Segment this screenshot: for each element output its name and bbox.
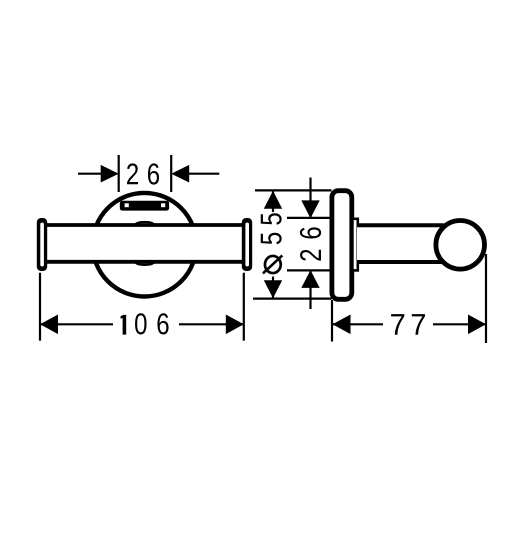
dimension 106 bottom: value text bbox=[121, 313, 169, 334]
dimension 77: dimension line and arrows bbox=[332, 315, 486, 335]
dimension 26 side: extension lines bbox=[287, 218, 331, 271]
front view: right end cap bbox=[242, 218, 252, 271]
dimension 26 top: extension lines bbox=[119, 155, 172, 192]
front view: mounting bracket plate bbox=[120, 201, 169, 211]
side view: collar flange bbox=[352, 219, 357, 271]
front view: left end cap bbox=[37, 218, 47, 271]
dimension 26 top: value text bbox=[127, 163, 159, 184]
front view: centre post bump bottom bbox=[135, 263, 154, 265]
dimension diameter 55: value text rotated bbox=[261, 213, 283, 273]
dimension diameter 55: dimension line and arrows bbox=[264, 190, 282, 298]
side view: hook arm bbox=[357, 225, 444, 262]
dimension 106 bottom: extension lines bbox=[40, 273, 244, 341]
side view: ball end bbox=[436, 221, 485, 270]
dimension 26 side: value text rotated bbox=[300, 227, 321, 260]
dimension 106 bottom: dimension line and arrows bbox=[40, 315, 244, 335]
dimension 26 top: leader and arrows bbox=[78, 165, 219, 183]
dimension 77: value text bbox=[391, 314, 425, 335]
dimension 26 side: dimension line and arrows bbox=[301, 178, 319, 310]
front view: hook bar body bbox=[47, 225, 242, 262]
front view: centre post bump top bbox=[135, 222, 154, 224]
front view: wall rosette circle bbox=[93, 193, 197, 297]
dimension 77: extension lines bbox=[332, 254, 486, 343]
side view: rosette plate bbox=[332, 191, 352, 300]
dimension diameter 55: extension lines bbox=[253, 190, 332, 298]
